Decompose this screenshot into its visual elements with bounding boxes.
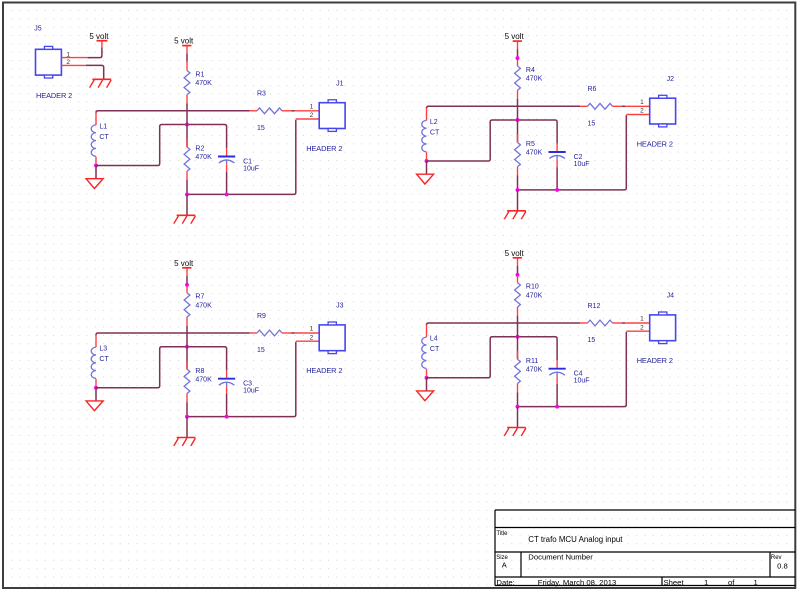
svg-text:CT trafo MCU Analog input: CT trafo MCU Analog input (528, 535, 623, 544)
resistor R5 470K (515, 106, 543, 190)
svg-text:470K: 470K (526, 150, 543, 157)
svg-text:470K: 470K (195, 376, 212, 383)
svg-text:Title: Title (496, 531, 508, 537)
svg-text:1: 1 (310, 103, 314, 110)
svg-text:10uF: 10uF (574, 378, 590, 385)
svg-text:R7: R7 (195, 294, 204, 301)
junction (225, 192, 229, 196)
svg-text:5 volt: 5 volt (505, 249, 525, 258)
connector J1 HEADER 2 (295, 80, 345, 153)
resistor R8 470K (184, 333, 212, 417)
wire (J5 pin2 to ground) (86, 65, 104, 78)
svg-text:L4: L4 (430, 336, 438, 343)
svg-text:15: 15 (588, 120, 596, 127)
junction (555, 188, 559, 192)
resistor R4 470K (515, 66, 543, 90)
svg-text:CT: CT (430, 346, 440, 353)
wire (L bottom to cap top) (427, 120, 558, 161)
svg-text:Date:: Date: (496, 578, 514, 587)
svg-text:J2: J2 (667, 76, 675, 83)
resistor R2 470K (184, 111, 212, 195)
svg-text:R3: R3 (257, 91, 266, 98)
svg-text:1: 1 (640, 99, 644, 106)
wire (J5 pin1 to 5 volt) (88, 41, 102, 57)
junction (555, 405, 559, 409)
svg-text:10uF: 10uF (243, 388, 259, 395)
svg-text:R8: R8 (195, 368, 204, 375)
wire (pin 2 to bottom rail) (518, 115, 627, 190)
ground (signal) (86, 388, 103, 411)
wire (L bottom to cap top) (96, 347, 227, 388)
connector J4 HEADER 2 (625, 293, 675, 366)
svg-text:L2: L2 (430, 119, 438, 126)
wire (pin 2 to bottom rail) (518, 332, 627, 407)
resistor R1 470K (184, 71, 212, 95)
svg-text:of: of (728, 578, 735, 587)
wire (517, 90, 519, 107)
svg-text:470K: 470K (195, 154, 212, 161)
power symbol 5 volt (circuit 2) (505, 32, 525, 41)
resistor R3 15 (250, 91, 295, 132)
svg-text:L1: L1 (99, 123, 107, 130)
ground (earth, J5) (90, 79, 112, 87)
svg-text:HEADER 2: HEADER 2 (637, 139, 673, 148)
svg-text:R6: R6 (588, 86, 597, 93)
svg-text:15: 15 (257, 347, 265, 354)
junction (185, 192, 189, 196)
wire (186, 46, 188, 70)
junction (L bottom) (425, 159, 429, 163)
wire (pin 2 to bottom rail) (187, 342, 296, 417)
junction (185, 345, 189, 349)
capacitor C3 10uF (218, 370, 259, 416)
wire (node A horizontal) (96, 333, 250, 335)
svg-text:J1: J1 (336, 80, 344, 87)
junction (516, 273, 520, 277)
svg-text:C2: C2 (574, 154, 583, 161)
svg-text:1: 1 (310, 326, 314, 333)
svg-text:HEADER 2: HEADER 2 (306, 366, 342, 375)
ground (earth) (174, 194, 196, 223)
wire (186, 268, 188, 292)
svg-text:470K: 470K (195, 80, 212, 87)
svg-text:15: 15 (588, 337, 596, 344)
wire (node A horizontal) (427, 106, 581, 108)
junction (L bottom) (425, 376, 429, 380)
junction (L bottom) (94, 386, 98, 390)
resistor R6 15 (580, 86, 625, 127)
svg-text:J4: J4 (667, 293, 675, 300)
svg-text:R10: R10 (526, 284, 539, 291)
wire (517, 42, 519, 66)
svg-text:1: 1 (754, 578, 758, 587)
title block (495, 510, 795, 587)
junction (225, 415, 229, 419)
power symbol 5 volt (J5) (89, 32, 109, 41)
junction (L bottom) (94, 164, 98, 168)
resistor R12 15 (580, 303, 625, 344)
inductor L3 CT (91, 335, 109, 386)
svg-text:1: 1 (66, 51, 70, 58)
inductor L1 CT (91, 112, 109, 163)
resistor R9 15 (250, 313, 295, 354)
svg-text:R11: R11 (526, 358, 538, 365)
power symbol 5 volt (circuit 3) (174, 259, 194, 268)
svg-text:C4: C4 (574, 371, 583, 378)
resistor R10 470K (515, 283, 543, 307)
power symbol 5 volt (circuit 4) (505, 249, 525, 258)
wire (L bottom to cap top) (427, 337, 558, 378)
resistor R11 470K (515, 323, 543, 407)
svg-text:2: 2 (640, 324, 644, 331)
svg-text:15: 15 (257, 125, 265, 132)
svg-text:0.8: 0.8 (777, 561, 788, 570)
svg-text:Friday, March 08, 2013: Friday, March 08, 2013 (538, 578, 616, 587)
svg-text:A: A (502, 561, 507, 570)
svg-text:10uF: 10uF (574, 161, 590, 168)
ground (signal) (417, 161, 434, 184)
power symbol 5 volt (circuit 1) (174, 37, 194, 46)
svg-text:Rev: Rev (771, 555, 782, 561)
svg-text:470K: 470K (526, 76, 543, 83)
ground (signal) (417, 378, 434, 401)
capacitor C1 10uF (218, 148, 259, 194)
junction (516, 118, 520, 122)
svg-text:10uF: 10uF (243, 165, 259, 172)
svg-text:2: 2 (310, 112, 314, 119)
svg-text:1: 1 (640, 316, 644, 323)
svg-text:C1: C1 (243, 158, 252, 165)
junction (516, 335, 520, 339)
svg-text:R9: R9 (257, 313, 266, 320)
svg-text:R4: R4 (526, 67, 535, 74)
wire (517, 258, 519, 282)
junction (185, 415, 189, 419)
connector J5 HEADER 2 (34, 25, 87, 100)
wire (node A horizontal) (427, 323, 581, 325)
ground (earth) (174, 417, 196, 446)
junction (185, 123, 189, 127)
svg-text:470K: 470K (526, 292, 543, 299)
svg-text:CT: CT (430, 130, 440, 137)
ground (earth) (504, 190, 526, 219)
connector J2 HEADER 2 (625, 76, 675, 149)
svg-text:Document Number: Document Number (528, 553, 593, 562)
svg-text:CT: CT (99, 134, 109, 141)
capacitor C2 10uF (549, 144, 590, 190)
connector J3 HEADER 2 (295, 303, 345, 376)
svg-text:J5: J5 (34, 25, 42, 32)
ground (signal) (86, 166, 103, 189)
svg-text:1: 1 (704, 578, 708, 587)
wire (pin 2 to bottom rail) (187, 120, 296, 195)
svg-text:R12: R12 (588, 303, 601, 310)
svg-text:HEADER 2: HEADER 2 (306, 144, 342, 153)
junction (516, 188, 520, 192)
junction (185, 283, 189, 287)
resistor R7 470K (184, 293, 212, 317)
junction (516, 405, 520, 409)
ground (earth) (504, 407, 526, 436)
svg-text:2: 2 (640, 108, 644, 115)
svg-text:5 volt: 5 volt (505, 32, 525, 41)
wire (186, 95, 188, 112)
wire (517, 307, 519, 324)
svg-text:R2: R2 (195, 146, 204, 153)
svg-text:470K: 470K (526, 366, 543, 373)
svg-text:R5: R5 (526, 141, 535, 148)
svg-text:5 volt: 5 volt (174, 259, 194, 268)
svg-text:R1: R1 (195, 72, 204, 79)
svg-text:470K: 470K (195, 302, 212, 309)
svg-text:2: 2 (310, 334, 314, 341)
svg-text:C3: C3 (243, 381, 252, 388)
svg-text:5 volt: 5 volt (174, 37, 194, 46)
svg-text:CT: CT (99, 356, 109, 363)
svg-text:HEADER 2: HEADER 2 (36, 91, 72, 100)
svg-text:Sheet: Sheet (664, 578, 685, 587)
wire (L bottom to cap top) (96, 125, 227, 166)
svg-text:J3: J3 (336, 303, 344, 310)
inductor L2 CT (422, 108, 440, 159)
svg-text:2: 2 (66, 59, 70, 66)
junction (516, 56, 520, 60)
svg-text:HEADER 2: HEADER 2 (637, 356, 673, 365)
capacitor C4 10uF (549, 360, 590, 406)
wire (node A horizontal) (96, 111, 250, 113)
inductor L4 CT (422, 325, 440, 376)
svg-text:L3: L3 (99, 346, 107, 353)
svg-text:5 volt: 5 volt (89, 32, 109, 41)
wire (186, 317, 188, 334)
